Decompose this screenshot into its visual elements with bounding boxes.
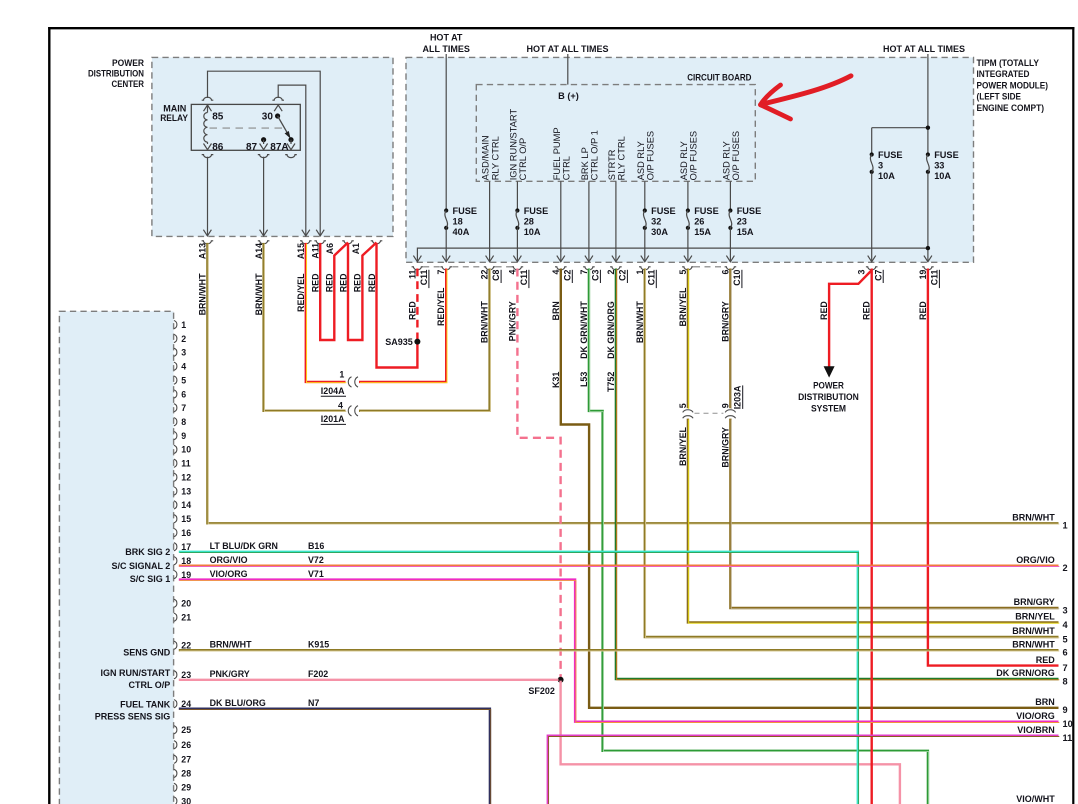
svg-text:F202: F202 — [308, 669, 328, 679]
svg-text:HOT AT: HOT AT — [430, 33, 463, 43]
TIPM pin 5 — [684, 256, 692, 262]
connector pin 22 — [174, 641, 177, 649]
svg-text:V72: V72 — [308, 555, 324, 565]
svg-text:A14: A14 — [254, 243, 264, 259]
svg-text:HOT AT ALL TIMES: HOT AT ALL TIMES — [527, 44, 609, 54]
svg-text:K915: K915 — [308, 639, 329, 649]
svg-text:9: 9 — [181, 431, 186, 441]
fuse 23 15A — [728, 208, 732, 212]
TIPM pin 6 C10 — [726, 256, 734, 262]
relay pin 85 terminal — [204, 105, 212, 111]
TIPM pin 2 C2 — [612, 256, 620, 262]
svg-text:30A: 30A — [651, 227, 668, 237]
svg-text:PNK/GRY: PNK/GRY — [210, 669, 250, 679]
svg-text:RED: RED — [819, 301, 829, 320]
wire BRN/GRY TIPM C10 pin6 to I203A — [729, 269, 731, 409]
wire BRN/WHT TIPM C11 pin1 to row 5 — [645, 269, 1059, 638]
splice I204A — [348, 377, 351, 387]
svg-text:ORG/VIO: ORG/VIO — [1016, 555, 1055, 565]
svg-text:HOT AT ALL TIMES: HOT AT ALL TIMES — [883, 44, 965, 54]
svg-text:BRN/WHT: BRN/WHT — [1012, 513, 1055, 523]
wire PNK/GRY F202 pin23 to SF202 — [179, 679, 559, 681]
svg-text:RED: RED — [325, 273, 335, 292]
svg-text:BRN/GRY: BRN/GRY — [1014, 597, 1055, 607]
svg-text:PNK/GRY: PNK/GRY — [507, 301, 517, 341]
svg-text:ALL TIMES: ALL TIMES — [423, 44, 470, 54]
PDC pin A11 — [314, 241, 326, 244]
svg-text:BRN/YEL: BRN/YEL — [1015, 612, 1055, 622]
svg-text:30: 30 — [181, 796, 191, 804]
svg-text:VIO/WHT: VIO/WHT — [1016, 794, 1055, 804]
svg-text:ORG/VIO: ORG/VIO — [210, 555, 248, 565]
wire fuse33 to pin19 C11 — [927, 173, 929, 262]
svg-text:O/P FUSES: O/P FUSES — [731, 131, 741, 180]
relay coil 85-86 — [207, 104, 209, 112]
connector link pin7-pin22 — [452, 266, 483, 268]
svg-text:BRN/GRY: BRN/GRY — [720, 301, 730, 342]
svg-text:BRN/YEL: BRN/YEL — [678, 426, 688, 466]
svg-text:RED/YEL: RED/YEL — [436, 287, 446, 326]
wire RED A1 to splice SA935 — [377, 243, 418, 368]
svg-text:B (+): B (+) — [558, 91, 579, 101]
TIPM pin 19 C11 — [924, 256, 932, 262]
svg-text:19: 19 — [918, 270, 928, 280]
connector pin 3 — [174, 348, 177, 356]
svg-text:BRN: BRN — [551, 301, 561, 320]
svg-text:FUSE: FUSE — [453, 206, 478, 216]
svg-text:CTRL: CTRL — [562, 156, 572, 180]
wire RED/YEL A15 to I204A — [306, 243, 346, 382]
svg-text:6: 6 — [181, 389, 186, 399]
svg-text:13: 13 — [181, 486, 191, 496]
svg-text:10: 10 — [181, 445, 191, 455]
wire RED branch to power distribution system — [829, 271, 871, 368]
svg-text:26: 26 — [181, 740, 191, 750]
PDC pin A15 arrow — [302, 230, 310, 236]
connector pin 7 — [174, 404, 177, 412]
svg-text:RED: RED — [1036, 655, 1056, 665]
wire BRN/WHT A14 to I201A — [264, 243, 346, 411]
wire relay 30 to A15 — [278, 85, 306, 236]
svg-text:C11: C11 — [646, 269, 656, 285]
wire RED A6 loop to A1 — [348, 243, 377, 341]
svg-text:A15: A15 — [296, 243, 306, 259]
svg-text:7: 7 — [181, 403, 186, 413]
svg-text:DK GRN/ORG: DK GRN/ORG — [996, 668, 1055, 678]
svg-text:BRN/WHT: BRN/WHT — [198, 273, 208, 315]
connector link pin5-pin6 — [694, 266, 724, 268]
PDC pin A14 arrow — [260, 230, 268, 236]
svg-text:DK GRN/ORG: DK GRN/ORG — [606, 301, 616, 359]
svg-text:FUSE: FUSE — [878, 150, 903, 160]
svg-text:IGN RUN/START: IGN RUN/START — [509, 109, 519, 181]
left connector module box — [59, 311, 173, 804]
svg-text:T752: T752 — [606, 372, 616, 392]
wire DK GRN/WHT L53 down off page — [589, 269, 928, 804]
wire RED TIPM C11 pin19 to row 7 — [928, 269, 1059, 666]
svg-text:4: 4 — [507, 270, 517, 275]
connector pin 28 — [174, 769, 177, 777]
fuse 18 40A — [444, 208, 448, 212]
fuse 3 10A — [870, 152, 874, 156]
svg-text:BRN/WHT: BRN/WHT — [1012, 639, 1055, 649]
svg-text:BRK LP: BRK LP — [580, 147, 590, 180]
svg-text:29: 29 — [181, 783, 191, 793]
junction bus fuse33 — [926, 246, 930, 250]
wire DK GRN/ORG T752 to row 8 — [616, 269, 1059, 680]
svg-text:14: 14 — [181, 500, 191, 510]
svg-text:BRN/WHT: BRN/WHT — [480, 301, 490, 343]
svg-text:4: 4 — [338, 401, 343, 411]
wire BRN/WHT K915 pin22 to row 6 — [179, 649, 1059, 651]
svg-text:11: 11 — [1063, 733, 1073, 743]
wire fuse3 to pin3 C7 — [871, 173, 873, 262]
TIPM module box — [406, 57, 974, 262]
wire relay 85 to A11 — [208, 71, 321, 236]
svg-text:STRTR: STRTR — [607, 149, 617, 180]
connector link pin11-pin7 — [423, 266, 440, 268]
svg-text:3: 3 — [181, 348, 186, 358]
svg-text:B16: B16 — [308, 541, 324, 551]
svg-text:RED: RED — [310, 273, 320, 292]
svg-text:RLY CTRL: RLY CTRL — [617, 136, 627, 180]
connector pin 21 — [174, 613, 177, 621]
connector pin 23 — [174, 671, 177, 679]
wire RED TIPM pin11 to SA935 (fusible link) — [416, 269, 418, 342]
svg-text:C2: C2 — [618, 269, 628, 280]
svg-text:A11: A11 — [310, 243, 320, 259]
svg-text:L53: L53 — [579, 372, 589, 387]
svg-text:3: 3 — [878, 160, 883, 170]
svg-text:40A: 40A — [453, 227, 470, 237]
TIPM pin 7 C3 — [585, 256, 593, 262]
svg-text:28: 28 — [181, 769, 191, 779]
PDC pin A6 — [342, 241, 354, 244]
svg-text:POWER: POWER — [112, 57, 144, 68]
wire LT BLU/DK GRN B16 pin17 down off page — [179, 552, 858, 804]
svg-text:FUSE: FUSE — [651, 206, 676, 216]
svg-text:SA935: SA935 — [385, 337, 413, 347]
connector pin 11 — [174, 459, 177, 467]
connector pin 8 — [174, 418, 177, 426]
svg-text:A13: A13 — [198, 243, 208, 259]
svg-text:POWER MODULE): POWER MODULE) — [977, 79, 1049, 90]
svg-text:1: 1 — [181, 320, 186, 330]
fuse 32 30A — [643, 208, 647, 212]
svg-text:C7: C7 — [873, 269, 883, 280]
relay internal dashed link — [210, 127, 284, 129]
svg-text:INTEGRATED: INTEGRATED — [977, 68, 1030, 79]
svg-text:K31: K31 — [551, 372, 561, 388]
svg-text:10A: 10A — [524, 227, 541, 237]
svg-text:BRN/YEL: BRN/YEL — [678, 287, 688, 327]
svg-text:I203A: I203A — [732, 385, 742, 409]
connector pin 5 — [174, 376, 177, 384]
svg-text:8: 8 — [181, 417, 186, 427]
TIPM pin 1 C11 — [641, 256, 649, 262]
svg-text:FUEL PUMP: FUEL PUMP — [552, 127, 562, 180]
connector pin 2 — [174, 334, 177, 342]
TIPM pin 3! C7 — [868, 256, 876, 262]
svg-text:6: 6 — [720, 270, 730, 275]
svg-text:32: 32 — [651, 216, 661, 226]
wire RED/YEL I204A to TIPM pin 7 — [359, 269, 446, 382]
connector pin 24 — [174, 700, 177, 708]
svg-text:A6: A6 — [325, 243, 335, 254]
connector pin 13 — [174, 487, 177, 495]
svg-text:85: 85 — [212, 111, 224, 122]
connector pin 12 — [174, 473, 177, 481]
relay pin 86 terminal — [204, 144, 212, 150]
svg-text:10A: 10A — [934, 171, 951, 181]
svg-text:N7: N7 — [308, 698, 319, 708]
svg-text:FUSE: FUSE — [694, 206, 719, 216]
junction fuse33 top — [926, 126, 930, 130]
wire BRN/WHT A13 to row 1 — [207, 243, 1058, 523]
svg-text:A1: A1 — [351, 243, 361, 254]
svg-text:RLY CTRL: RLY CTRL — [490, 136, 500, 180]
svg-text:(LEFT SIDE: (LEFT SIDE — [977, 91, 1022, 102]
connector pin 26 — [174, 741, 177, 749]
svg-text:FUSE: FUSE — [737, 206, 762, 216]
wire PNK SF202 down off page — [561, 681, 900, 804]
svg-text:15A: 15A — [737, 227, 754, 237]
connector pin 29 — [174, 783, 177, 791]
svg-text:CTRL O/P: CTRL O/P — [128, 680, 170, 690]
wire RED A11 loop to A6 — [320, 243, 348, 341]
wire VIO/BRN from off page to row 11 — [548, 736, 1059, 804]
svg-text:5: 5 — [678, 270, 688, 275]
PDC pin A11 arrow — [316, 230, 324, 236]
svg-text:1: 1 — [635, 270, 645, 275]
fuse 28 10A — [515, 208, 519, 212]
wire VIO/ORG V71 pin19 to row 10 — [179, 580, 1059, 722]
svg-text:CTRL O/P: CTRL O/P — [518, 138, 528, 181]
svg-text:SENS GND: SENS GND — [123, 647, 171, 657]
relay pin 87A terminal — [287, 144, 295, 150]
svg-text:V71: V71 — [308, 569, 324, 579]
svg-text:RED/YEL: RED/YEL — [296, 273, 306, 312]
svg-text:7: 7 — [1063, 663, 1068, 673]
svg-text:10A: 10A — [878, 171, 895, 181]
wire DK BLU/ORG N7 pin24 down off page — [179, 709, 490, 804]
connector pin 18 — [174, 557, 177, 565]
svg-text:ASD RLY: ASD RLY — [636, 141, 646, 180]
svg-text:2: 2 — [181, 334, 186, 344]
connector pin 19 — [174, 571, 177, 579]
TIPM pin 22 C8 — [486, 256, 494, 262]
svg-text:FUSE: FUSE — [524, 206, 549, 216]
svg-text:5: 5 — [678, 403, 688, 408]
svg-text:VIO/ORG: VIO/ORG — [1016, 711, 1055, 721]
connector pin 20 — [174, 599, 177, 607]
wire RED TIPM C7 pin3 down off page — [871, 269, 873, 804]
svg-text:18: 18 — [453, 216, 463, 226]
svg-text:FUEL TANK: FUEL TANK — [120, 699, 171, 709]
svg-text:22: 22 — [480, 270, 490, 280]
svg-text:6: 6 — [1063, 648, 1068, 658]
svg-text:LT BLU/DK GRN: LT BLU/DK GRN — [210, 541, 278, 551]
svg-text:8: 8 — [1063, 676, 1068, 686]
bus to pin 11 — [417, 248, 928, 262]
svg-text:RED: RED — [918, 301, 928, 320]
svg-text:DISTRIBUTION: DISTRIBUTION — [798, 392, 859, 402]
svg-text:ASD RLY: ASD RLY — [722, 141, 732, 180]
svg-text:21: 21 — [181, 613, 191, 623]
splice SA935 — [414, 339, 420, 345]
PDC pin A13 — [202, 241, 214, 244]
relay pin 30 terminal — [274, 105, 282, 111]
svg-text:SF202: SF202 — [528, 686, 555, 696]
svg-text:5: 5 — [181, 375, 186, 385]
connector pin 1 — [174, 321, 177, 329]
svg-text:DISTRIBUTION: DISTRIBUTION — [88, 67, 144, 78]
svg-text:BRN/WHT: BRN/WHT — [635, 301, 645, 343]
connector pin 15 — [174, 515, 177, 523]
svg-text:BRK SIG 2: BRK SIG 2 — [125, 547, 170, 557]
wire BRN/WHT I201A to TIPM C8 pin 22 — [359, 269, 490, 411]
PDC pin A15 — [300, 241, 312, 244]
svg-text:4: 4 — [1063, 620, 1069, 630]
svg-text:7: 7 — [579, 270, 589, 275]
connector pin 16 — [174, 529, 177, 537]
connector pin 30 — [174, 797, 177, 804]
relay contact 87 — [261, 137, 266, 142]
svg-text:9: 9 — [720, 403, 730, 408]
wire BRN K31 to row 9 — [561, 269, 1059, 708]
wire BRN/GRY I203A to row 3 — [730, 419, 1058, 608]
fuse 33 10A — [926, 152, 930, 156]
svg-text:POWER: POWER — [813, 381, 844, 391]
svg-text:O/P FUSES: O/P FUSES — [689, 131, 699, 180]
svg-text:TIPM (TOTALLY: TIPM (TOTALLY — [977, 57, 1040, 68]
svg-text:86: 86 — [212, 142, 224, 153]
svg-text:BRN: BRN — [1035, 697, 1055, 707]
svg-text:7: 7 — [436, 270, 446, 275]
svg-text:C11: C11 — [419, 269, 429, 285]
svg-text:C10: C10 — [732, 269, 742, 285]
PDC pin A1 — [371, 241, 383, 244]
PDC pin A14 — [258, 241, 270, 244]
red annotation arrow — [762, 76, 852, 105]
wire fuse18 to pin7 — [445, 228, 447, 262]
svg-text:20: 20 — [181, 599, 191, 609]
splice SF202 — [558, 677, 564, 683]
svg-text:27: 27 — [181, 755, 191, 765]
svg-text:4: 4 — [181, 362, 186, 372]
svg-text:CTRL O/P 1: CTRL O/P 1 — [590, 130, 600, 180]
svg-text:I201A: I201A — [321, 414, 345, 424]
svg-text:CENTER: CENTER — [112, 78, 145, 89]
svg-text:12: 12 — [181, 473, 191, 483]
svg-text:O/P FUSES: O/P FUSES — [646, 131, 656, 180]
wire BRN/YEL TIPM pin5 to I203A — [687, 269, 689, 409]
svg-text:15A: 15A — [694, 227, 711, 237]
wire ORG/VIO V72 pin18 to row 2 — [179, 565, 1059, 567]
connector pin 6 — [174, 390, 177, 398]
svg-text:23: 23 — [737, 216, 747, 226]
svg-text:26: 26 — [694, 216, 704, 226]
svg-text:RELAY: RELAY — [160, 112, 188, 123]
svg-text:DK BLU/ORG: DK BLU/ORG — [210, 698, 266, 708]
connector pin 9 — [174, 432, 177, 440]
svg-text:87A: 87A — [270, 142, 288, 153]
svg-text:3: 3 — [857, 270, 867, 275]
PDC pin A13 arrow — [203, 230, 211, 236]
svg-text:RED: RED — [407, 301, 417, 320]
circuit board box — [476, 85, 755, 182]
svg-text:PRESS SENS SIG: PRESS SENS SIG — [95, 712, 171, 722]
svg-text:2: 2 — [606, 270, 616, 275]
svg-text:CIRCUIT BOARD: CIRCUIT BOARD — [687, 73, 752, 83]
TIPM pin 4 C2 — [557, 256, 565, 262]
svg-text:ASD/MAIN: ASD/MAIN — [481, 135, 491, 180]
svg-text:ENGINE COMPT): ENGINE COMPT) — [977, 102, 1045, 113]
svg-text:C2: C2 — [562, 269, 572, 280]
splice I201A — [348, 406, 351, 416]
connector pin 17 — [174, 543, 177, 551]
connector pin 14 — [174, 501, 177, 509]
svg-text:VIO/BRN: VIO/BRN — [1017, 725, 1055, 735]
svg-text:BRN/GRY: BRN/GRY — [720, 427, 730, 468]
svg-text:28: 28 — [524, 216, 534, 226]
svg-text:16: 16 — [181, 528, 191, 538]
TIPM pin 11 C11 — [413, 256, 421, 262]
relay box MAIN RELAY — [191, 104, 300, 150]
svg-text:1: 1 — [339, 369, 344, 379]
svg-text:1: 1 — [1063, 521, 1068, 531]
connector link pin22-pin4 — [496, 266, 512, 268]
svg-text:IGN RUN/START: IGN RUN/START — [100, 668, 170, 678]
svg-text:C8: C8 — [491, 269, 501, 280]
fuse 26 15A — [686, 208, 690, 212]
svg-text:I204A: I204A — [321, 386, 345, 396]
svg-text:10: 10 — [1063, 719, 1073, 729]
svg-text:2: 2 — [1063, 563, 1068, 573]
connector pin 10 — [174, 445, 177, 453]
svg-text:C3: C3 — [591, 269, 601, 280]
svg-text:RED: RED — [862, 301, 872, 320]
svg-text:ASD RLY: ASD RLY — [679, 141, 689, 180]
relay pin 87 terminal — [260, 144, 268, 150]
svg-text:VIO/ORG: VIO/ORG — [210, 569, 248, 579]
svg-text:9: 9 — [1063, 705, 1068, 715]
connector pin 27 — [174, 755, 177, 763]
svg-text:BRN/WHT: BRN/WHT — [210, 639, 252, 649]
svg-text:DK GRN/WHT: DK GRN/WHT — [579, 301, 589, 359]
svg-text:33: 33 — [934, 160, 944, 170]
svg-text:BRN/WHT: BRN/WHT — [1012, 626, 1055, 636]
svg-text:S/C SIG 1: S/C SIG 1 — [130, 574, 171, 584]
connector I203A — [683, 410, 693, 413]
svg-text:C11: C11 — [930, 269, 940, 285]
svg-text:3: 3 — [1063, 605, 1068, 615]
svg-text:25: 25 — [181, 725, 191, 735]
svg-text:C11: C11 — [519, 269, 529, 285]
svg-text:S/C SIGNAL 2: S/C SIGNAL 2 — [111, 561, 170, 571]
svg-text:87: 87 — [246, 142, 258, 153]
svg-text:11: 11 — [407, 270, 417, 279]
svg-text:5: 5 — [1063, 634, 1068, 644]
svg-text:11: 11 — [181, 459, 190, 469]
wire BRN/YEL I203A to row 4 — [688, 419, 1059, 623]
connector pin 4 — [174, 362, 177, 370]
wire PNK/GRY TIPM pin4 C11 to SF202 — [517, 269, 560, 680]
wire to fuse 3 — [872, 127, 928, 129]
svg-text:BRN/WHT: BRN/WHT — [254, 273, 264, 315]
TIPM pin 7 — [442, 256, 450, 262]
power distribution center box — [152, 57, 393, 236]
